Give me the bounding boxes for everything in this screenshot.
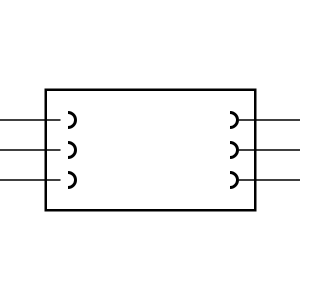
wire right pin 2 xyxy=(239,149,300,151)
wire right pin 3 xyxy=(239,179,300,181)
socket contact left 2 xyxy=(68,143,76,158)
connector body J1 xyxy=(46,90,256,211)
socket contact right 2 xyxy=(230,143,238,158)
wire left pin 1 xyxy=(0,119,61,121)
socket contact left 3 xyxy=(68,173,76,188)
socket contact right 3 xyxy=(230,173,238,188)
wire right pin 1 xyxy=(239,119,300,121)
wire left pin 2 xyxy=(0,149,61,151)
wire left pin 3 xyxy=(0,179,61,181)
socket contact right 1 xyxy=(230,113,237,128)
socket contact left 1 xyxy=(68,113,75,128)
